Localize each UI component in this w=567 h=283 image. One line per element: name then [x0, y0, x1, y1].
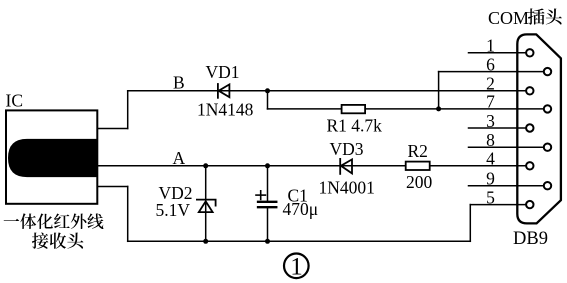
- svg-text:7: 7: [486, 92, 495, 112]
- DB9 pin 9 hole: [544, 182, 551, 189]
- wire C1 branch upper: [267, 166, 269, 201]
- svg-text:5.1V: 5.1V: [156, 200, 191, 220]
- wire IC pin3 stub: [97, 128, 127, 130]
- label 接收头: [32, 232, 49, 248]
- svg-text:8: 8: [486, 130, 495, 150]
- svg-text:1N4148: 1N4148: [197, 99, 254, 119]
- wire C1 branch lower: [267, 208, 269, 241]
- svg-text:6: 6: [486, 54, 495, 74]
- wire vertical up to pin5: [469, 205, 471, 242]
- wire vertical pin3 to node B: [127, 91, 129, 129]
- svg-text:1N4001: 1N4001: [319, 177, 375, 197]
- junction node A / C1: [265, 163, 270, 168]
- DB9 pin 1 hole: [526, 49, 533, 56]
- svg-text:A: A: [173, 148, 186, 168]
- IC 一体化红外线接收头 box: [6, 110, 97, 203]
- wire DB9 pin5 stub: [470, 204, 525, 206]
- svg-text:2: 2: [486, 74, 495, 94]
- wire node B line to DB9 pin2: [128, 90, 525, 92]
- svg-text:200: 200: [406, 172, 433, 192]
- svg-text:9: 9: [486, 169, 495, 189]
- DB9 pin 3 hole: [526, 124, 533, 131]
- wire ground/common bottom line: [128, 240, 471, 242]
- junction bottom / VD2: [203, 239, 208, 244]
- junction node B / R1 branch: [265, 88, 270, 93]
- svg-text:VD1: VD1: [206, 62, 240, 82]
- svg-text:1: 1: [486, 36, 495, 56]
- svg-text:IC: IC: [6, 91, 24, 111]
- wire vertical pin1 down: [127, 187, 129, 242]
- wire pin6 to pin7 tie: [438, 72, 440, 109]
- C1 plus polarity mark: [256, 191, 265, 200]
- wire VD2 branch vertical: [205, 166, 207, 242]
- label 一体化红外线: [4, 219, 20, 221]
- wire node A line to DB9 pin4: [97, 165, 525, 167]
- DB9 pin 8 hole: [544, 144, 551, 151]
- IC IR receiver dome (filled): [8, 139, 97, 177]
- junction pin6/pin7 tie: [436, 106, 441, 111]
- svg-text:COM: COM: [488, 8, 529, 28]
- DB9 pin 6 hole: [544, 68, 551, 75]
- diode VD1 1N4148: [218, 84, 230, 98]
- svg-text:B: B: [173, 72, 185, 92]
- resistor R1 4.7k: [342, 105, 366, 113]
- wire DB9 pin6 stub: [439, 71, 543, 73]
- resistor R2 200: [406, 162, 430, 170]
- svg-text:4: 4: [486, 149, 495, 169]
- svg-text:470μ: 470μ: [283, 199, 319, 219]
- svg-text:DB9: DB9: [513, 229, 548, 249]
- wire R1 line to DB9 pin7: [268, 108, 543, 110]
- wire IC pin1 stub: [97, 186, 127, 188]
- figure number circled 1: [284, 253, 309, 278]
- zener diode VD2 5.1V: [197, 200, 216, 213]
- svg-text:5: 5: [486, 187, 495, 207]
- capacitor C1 470u (electrolytic): [258, 202, 276, 207]
- DB9 pin 4 hole: [526, 162, 533, 169]
- DB9 pin 7 hole: [544, 105, 551, 112]
- diode VD3 1N4001: [340, 159, 352, 174]
- wire node B down to R1: [267, 91, 269, 109]
- junction node A / VD2: [203, 163, 208, 168]
- DB9 pin 5 hole: [526, 201, 533, 208]
- svg-text:R2: R2: [408, 141, 428, 161]
- DB9 pin 2 hole: [526, 87, 533, 94]
- wire DB9 pin8 stub: [469, 146, 543, 148]
- svg-text:R1 4.7k: R1 4.7k: [327, 115, 383, 135]
- DB9 COM connector shell: [517, 34, 561, 223]
- wire DB9 pin1 stub: [469, 52, 526, 54]
- wire DB9 pin9 stub: [469, 185, 543, 187]
- label COM插头 (cjk part): [528, 8, 545, 24]
- wire DB9 pin3 stub: [469, 127, 526, 129]
- svg-text:3: 3: [486, 111, 495, 131]
- junction bottom / C1: [265, 239, 270, 244]
- svg-text:VD3: VD3: [330, 139, 364, 159]
- svg-text:1: 1: [290, 253, 303, 280]
